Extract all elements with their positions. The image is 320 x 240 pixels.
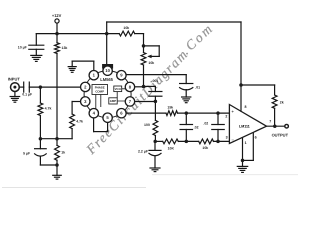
svg-text:8: 8 <box>245 105 247 109</box>
svg-text:2k: 2k <box>280 101 284 105</box>
svg-text:1: 1 <box>245 141 247 145</box>
svg-text:10K: 10K <box>168 146 175 150</box>
svg-text:.01: .01 <box>195 86 200 90</box>
svg-text:1k: 1k <box>61 151 65 155</box>
svg-text:+: + <box>231 109 234 114</box>
svg-text:4.7k: 4.7k <box>76 119 83 123</box>
svg-text:15k: 15k <box>167 105 173 109</box>
svg-text:.001: .001 <box>151 79 158 83</box>
svg-text:.02: .02 <box>203 121 208 125</box>
svg-text:2.2 µF: 2.2 µF <box>138 150 149 154</box>
svg-text:VCO: VCO <box>115 87 122 91</box>
svg-text:LM111: LM111 <box>239 124 250 128</box>
svg-text:10: 10 <box>105 68 110 73</box>
svg-text:7: 7 <box>269 120 271 124</box>
svg-text:100: 100 <box>144 123 150 127</box>
svg-text:13k: 13k <box>62 46 68 50</box>
svg-text:3: 3 <box>226 136 228 140</box>
svg-text:COMP: COMP <box>95 89 104 93</box>
svg-text:LM565: LM565 <box>100 77 113 82</box>
svg-text:10k: 10k <box>148 61 154 65</box>
svg-text:6: 6 <box>255 135 257 139</box>
svg-text:10k: 10k <box>202 146 208 150</box>
svg-text:+12V: +12V <box>52 13 62 18</box>
svg-text:−: − <box>231 137 234 142</box>
svg-text:0.1 µF: 0.1 µF <box>22 93 33 97</box>
svg-text:OUTPUT: OUTPUT <box>272 133 289 138</box>
svg-text:INPUT: INPUT <box>8 76 21 81</box>
svg-text:4.7k: 4.7k <box>45 107 52 111</box>
svg-text:.02: .02 <box>194 126 199 130</box>
svg-text:AMP: AMP <box>110 99 116 103</box>
svg-text:5 µF: 5 µF <box>23 151 31 155</box>
svg-text:10 µF: 10 µF <box>18 46 28 50</box>
svg-text:10k: 10k <box>123 26 129 30</box>
svg-text:2: 2 <box>225 115 227 119</box>
